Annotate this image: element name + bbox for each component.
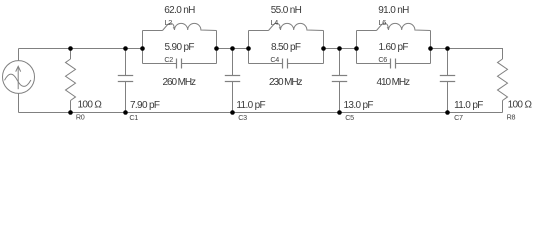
resistor R8 (load termination): [498, 59, 508, 113]
junction node on top rail x=430.5: [428, 46, 433, 51]
svg-text:7.90 pF: 7.90 pF: [130, 100, 160, 111]
svg-text:C6: C6: [378, 55, 387, 64]
svg-text:11.0 pF: 11.0 pF: [454, 100, 483, 111]
label: resonance 230 MHz: [269, 77, 302, 88]
tank L4/C4: left vertical: [248, 31, 250, 64]
svg-text:R0: R0: [76, 113, 85, 122]
svg-text:L2: L2: [165, 18, 173, 27]
inductor L2 (top branch): [143, 23, 217, 30]
capacitor C6 (bottom branch): [357, 59, 431, 69]
junction node on top rail x=142.5: [140, 46, 145, 51]
svg-text:230 MHz: 230 MHz: [269, 77, 302, 88]
capacitor C3 (shunt): [225, 49, 240, 113]
junction node on top rail x=323.5: [321, 46, 326, 51]
tank L2/C2: right vertical: [216, 31, 218, 64]
label: 100 &#937; (R0 value): [78, 99, 103, 110]
svg-text:100 Ω: 100 Ω: [78, 99, 103, 110]
svg-text:11.0 pF: 11.0 pF: [236, 100, 265, 111]
svg-text:C5: C5: [345, 113, 354, 122]
junction node on bottom rail x=447.5: [445, 110, 450, 115]
label: designator C5: [345, 113, 354, 122]
label: designator L6: [379, 18, 387, 27]
wire: top rail from source to tank1 left: [19, 48, 143, 50]
junction node on bottom rail x=70.5: [68, 110, 73, 115]
label: 5.90 pF (C2 value): [165, 42, 195, 53]
junction node on bottom rail x=339.5: [337, 110, 342, 115]
junction node on top rail x=70.5: [68, 46, 73, 51]
tank L2/C2: left vertical: [142, 31, 144, 64]
junction node on top rail x=447.5: [445, 46, 450, 51]
svg-text:C2: C2: [164, 55, 173, 64]
capacitor C7 (shunt): [440, 49, 455, 113]
junction node on top rail x=248.5: [246, 46, 251, 51]
label: designator C2: [164, 55, 173, 64]
svg-text:13.0 pF: 13.0 pF: [344, 100, 374, 111]
label: 55.0 nH (L4 value): [271, 5, 302, 16]
wire: top rail from tank3 to load corner: [431, 49, 503, 60]
wire: bottom return rail: [19, 112, 503, 114]
capacitor C4 (bottom branch): [249, 59, 324, 69]
svg-text:260 MHz: 260 MHz: [163, 77, 196, 88]
junction node on top rail x=232.5: [230, 46, 235, 51]
label: 13.0 pF (C5 value): [344, 100, 374, 111]
svg-text:55.0 nH: 55.0 nH: [271, 5, 302, 16]
tank L6/C6: left vertical: [356, 31, 358, 64]
tank L6/C6: right vertical: [430, 31, 432, 64]
label: designator R0: [76, 113, 85, 122]
inductor L4 (top branch): [249, 23, 324, 30]
svg-text:L6: L6: [379, 18, 387, 27]
label: resonance 410 MHz: [377, 77, 410, 88]
label: designator L4: [271, 18, 279, 27]
capacitor C2 (bottom branch): [143, 59, 217, 69]
svg-text:91.0 nH: 91.0 nH: [378, 5, 409, 16]
label: designator C4: [270, 55, 279, 64]
junction node on bottom rail x=232.5: [230, 110, 235, 115]
svg-text:1.60 pF: 1.60 pF: [379, 42, 409, 53]
label: 1.60 pF (C6 value): [379, 42, 409, 53]
label: 91.0 nH (L6 value): [378, 5, 409, 16]
resistor R0 (source termination): [66, 49, 76, 113]
label: designator C3: [238, 113, 247, 122]
svg-text:100 Ω: 100 Ω: [508, 99, 533, 110]
label: 62.0 nH (L2 value): [164, 5, 195, 16]
junction node on top rail x=356.5: [354, 46, 359, 51]
label: 7.90 pF (C1 value): [130, 100, 160, 111]
label: designator R8: [507, 113, 516, 122]
junction node on top rail x=216.5: [214, 46, 219, 51]
svg-text:410 MHz: 410 MHz: [377, 77, 410, 88]
label: designator C1: [129, 113, 138, 122]
junction node on top rail x=125.5: [123, 46, 128, 51]
tank L4/C4: right vertical: [323, 31, 325, 64]
label: resonance 260 MHz: [163, 77, 196, 88]
wire: top rail between tank1 and tank2: [217, 48, 249, 50]
label: 100 &#937; (R8 value): [508, 99, 533, 110]
junction node on bottom rail x=125.5: [123, 110, 128, 115]
inductor L6 (top branch): [357, 23, 431, 30]
junction node on top rail x=339.5: [337, 46, 342, 51]
svg-text:C4: C4: [270, 55, 279, 64]
label: designator C7: [454, 113, 463, 122]
svg-text:C3: C3: [238, 113, 247, 122]
svg-text:C1: C1: [129, 113, 138, 122]
svg-text:62.0 nH: 62.0 nH: [164, 5, 195, 16]
svg-text:8.50 pF: 8.50 pF: [271, 42, 301, 53]
capacitor C1 (shunt): [118, 49, 133, 113]
svg-text:5.90 pF: 5.90 pF: [165, 42, 195, 53]
svg-text:R8: R8: [507, 113, 516, 122]
svg-text:C7: C7: [454, 113, 463, 122]
wire: top rail between tank2 and tank3: [324, 48, 357, 50]
AC source generator: [3, 49, 35, 113]
label: 8.50 pF (C4 value): [271, 42, 301, 53]
label: 11.0 pF (C7 value): [454, 100, 483, 111]
svg-text:L4: L4: [271, 18, 279, 27]
label: 11.0 pF (C3 value): [236, 100, 265, 111]
label: designator C6: [378, 55, 387, 64]
capacitor C5 (shunt): [332, 49, 347, 113]
label: designator L2: [165, 18, 173, 27]
